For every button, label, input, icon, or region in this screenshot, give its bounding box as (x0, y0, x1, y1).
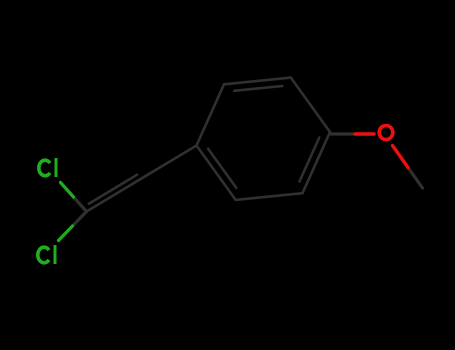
wire C-O bond oxygen half (red) (355, 132, 374, 135)
wire O-CH3 bond oxygen half (red) (393, 146, 409, 168)
wire ring edge C6-C1 (303, 132, 331, 193)
wire ring edge C3-C4 (197, 84, 225, 145)
bonds colored halves (59, 134, 409, 241)
atom Cl label 2 (lower) : C arc + l bar (38, 245, 55, 264)
wire ring edge C4(ipso)-C5 (197, 146, 236, 200)
atom Cl label 1 (upper) : C arc + l bar (39, 158, 56, 177)
wire C-Cl2 bond chlorine half (green) (59, 226, 73, 241)
wire aromatic inner line top (234, 86, 282, 91)
wire C-O bond carbon half (330, 132, 353, 135)
wire aromatic inner line lower-right (300, 138, 320, 182)
wire C-Cl1 bond chlorine half (green) (61, 183, 74, 198)
atom O (methoxy oxygen) (379, 126, 393, 140)
wire ring edge C2-C3 top (224, 78, 291, 85)
wire vinyl chain C4(ipso) to CCl2 carbon (87, 146, 197, 212)
wire C-Cl2 bond carbon half (73, 212, 87, 227)
wire ring edge C1(O-attach)-C2 (291, 78, 330, 132)
wire O-CH3 bond carbon half (408, 168, 423, 189)
wire C-Cl1 bond carbon half (74, 197, 87, 212)
benzene ring C1-C6 (outer hexagon) (73, 78, 423, 226)
wire ring edge C5-C6 bottom (236, 193, 303, 200)
wire aromatic inner line lower-left (208, 149, 236, 188)
wire C=C double bond second line (89, 175, 137, 204)
